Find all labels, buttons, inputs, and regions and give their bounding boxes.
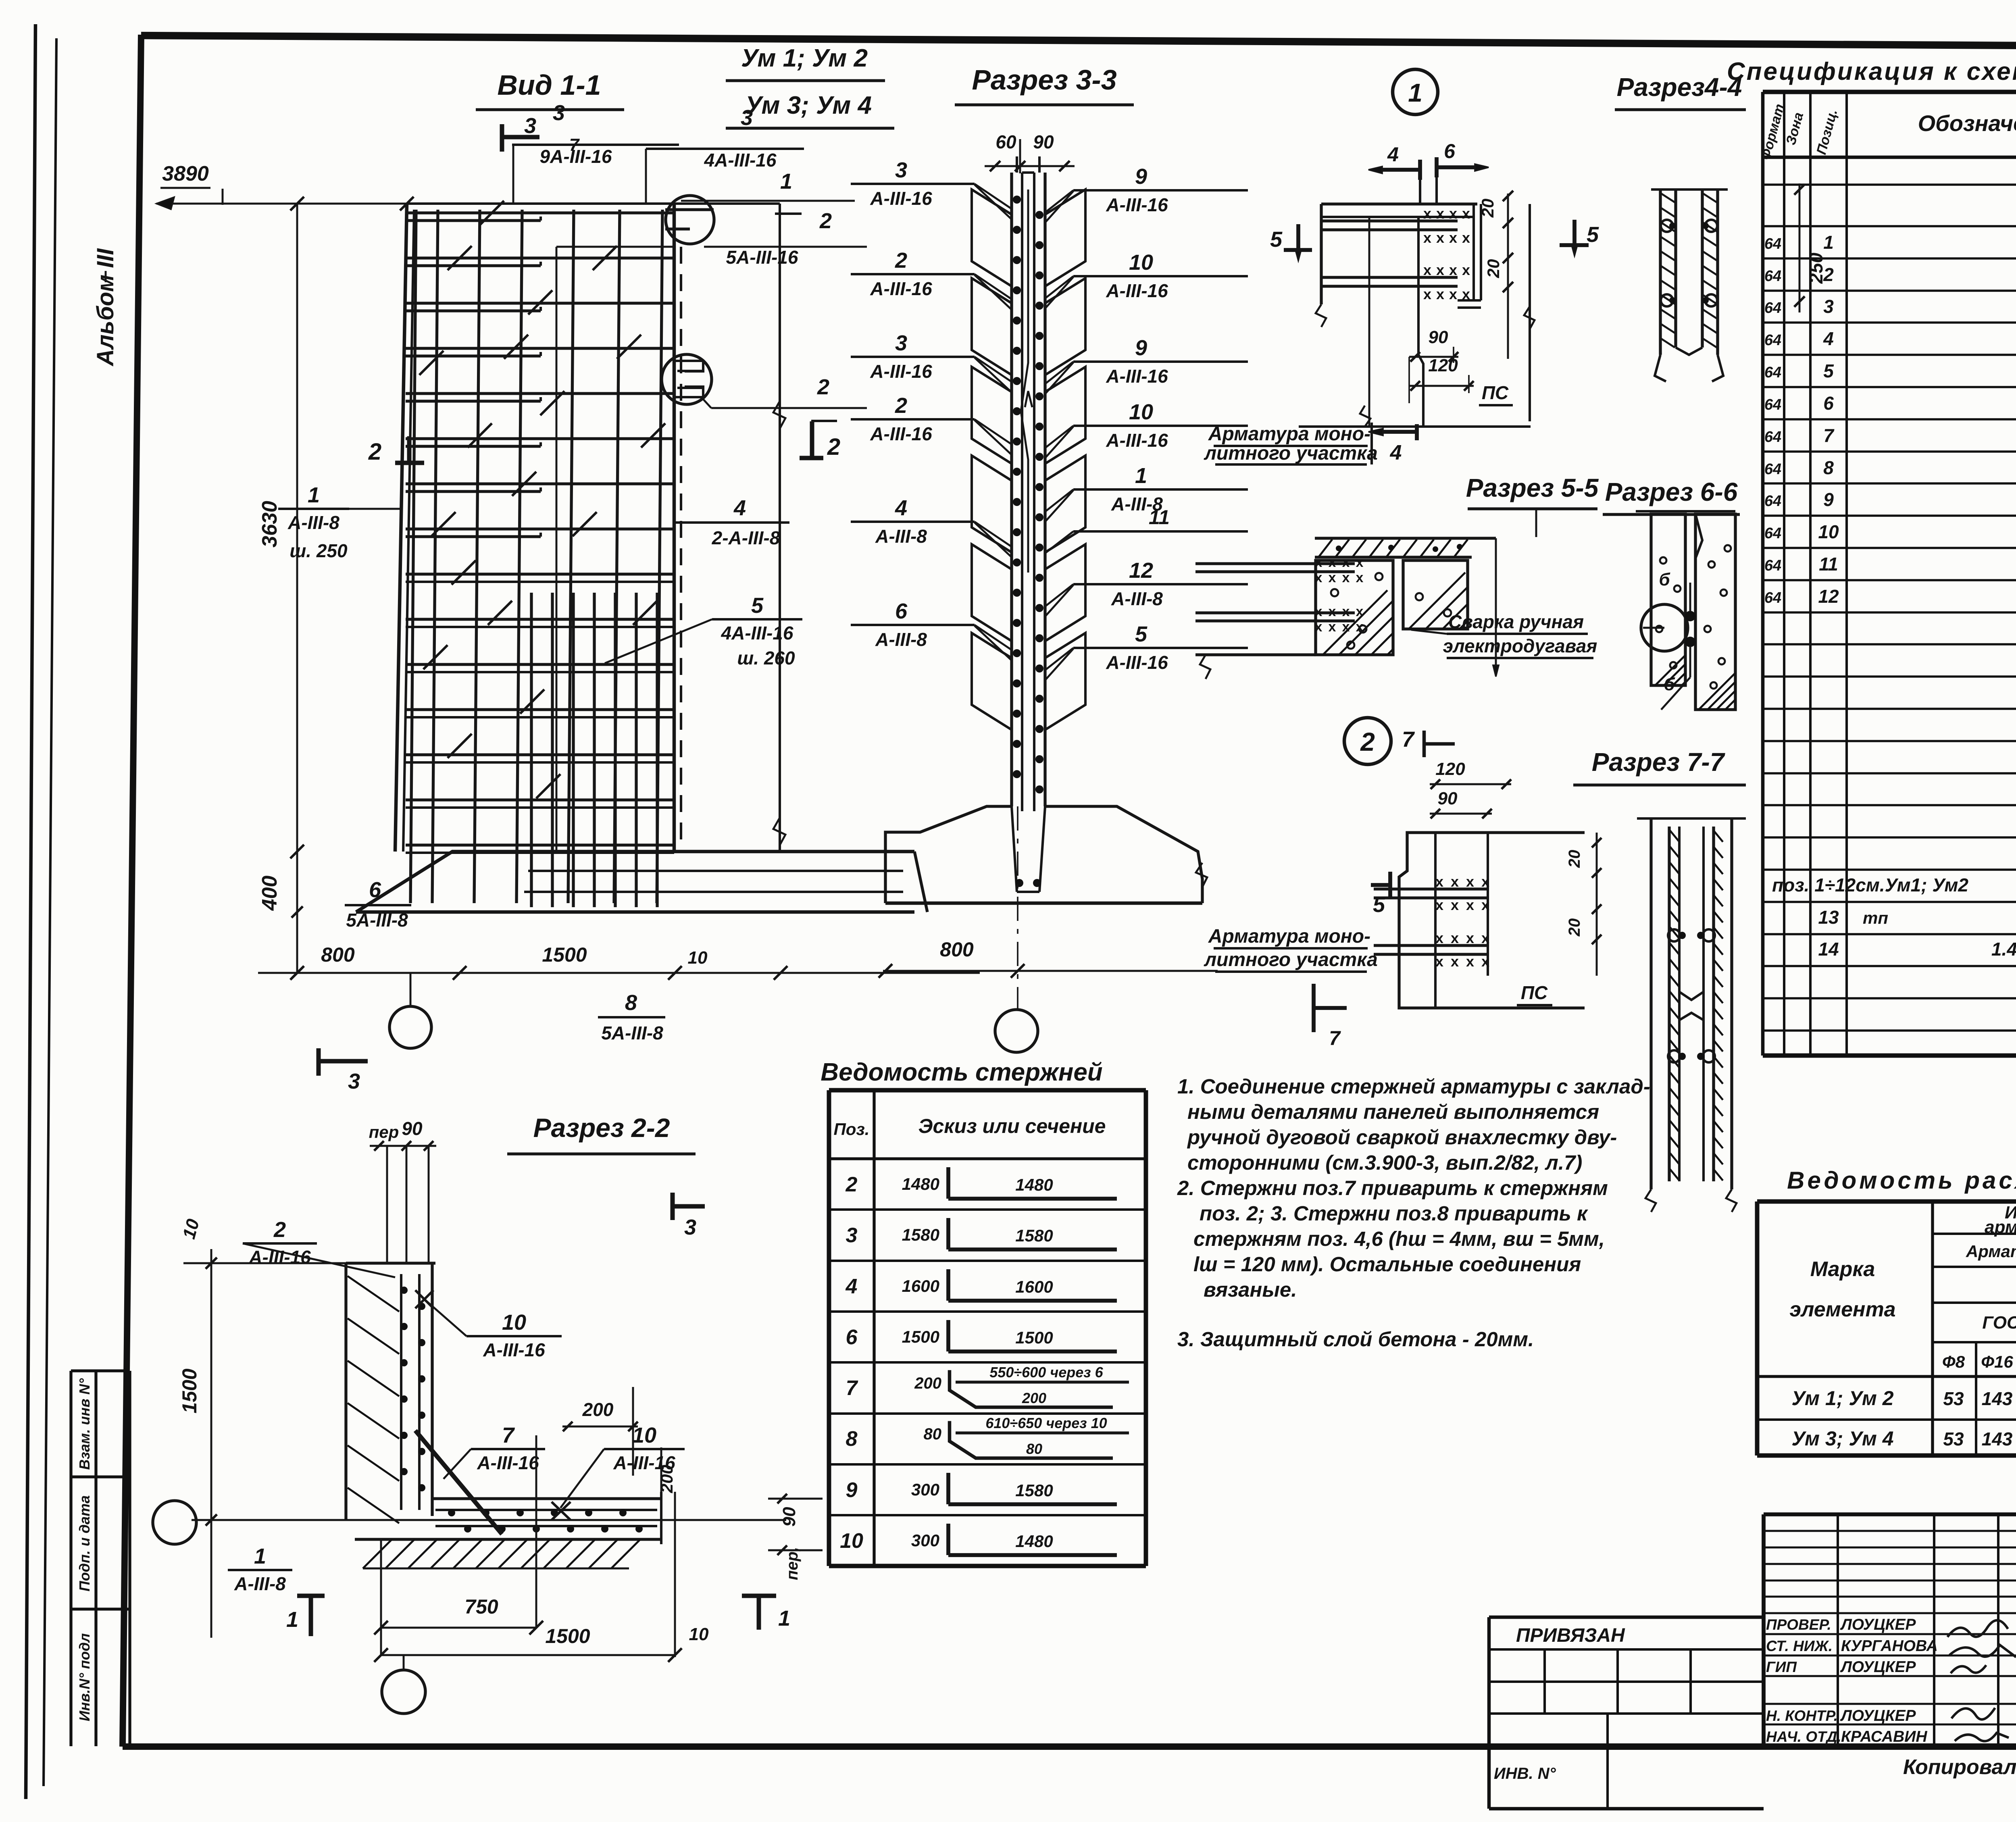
svg-text:5А-III-8: 5А-III-8 xyxy=(346,910,408,931)
svg-text:x: x xyxy=(1466,873,1474,890)
svg-text:арматурные: арматурные xyxy=(1985,1217,2016,1237)
svg-text:x: x xyxy=(1435,930,1443,946)
svg-text:1500: 1500 xyxy=(1015,1328,1053,1347)
svg-text:x: x xyxy=(1315,570,1322,585)
svg-text:Арматура моно-: Арматура моно- xyxy=(1208,423,1370,445)
svg-text:143: 143 xyxy=(1982,1388,2013,1409)
svg-text:20: 20 xyxy=(1478,199,1497,218)
svg-text:А-III-8: А-III-8 xyxy=(875,629,927,650)
svg-text:КРАСАВИН: КРАСАВИН xyxy=(1841,1728,1927,1745)
svg-text:10: 10 xyxy=(502,1310,526,1335)
svg-text:10: 10 xyxy=(840,1529,863,1553)
svg-text:12: 12 xyxy=(1129,558,1153,583)
svg-text:x: x xyxy=(1466,930,1474,946)
svg-text:А-III-8: А-III-8 xyxy=(1111,588,1163,609)
svg-text:3890: 3890 xyxy=(162,162,209,185)
svg-text:1500: 1500 xyxy=(545,1625,590,1647)
svg-text:x: x xyxy=(1356,619,1364,635)
svg-text:64: 64 xyxy=(1764,493,1781,510)
svg-text:90: 90 xyxy=(1033,131,1054,152)
svg-text:5: 5 xyxy=(751,593,764,618)
svg-text:x: x xyxy=(1466,897,1474,913)
svg-text:А-III-16: А-III-16 xyxy=(870,361,932,382)
svg-text:x: x xyxy=(1449,205,1457,222)
svg-text:2: 2 xyxy=(895,394,907,418)
svg-text:б: б xyxy=(1659,570,1670,589)
svg-text:Разрез 3-3: Разрез 3-3 xyxy=(972,64,1116,96)
svg-text:1: 1 xyxy=(308,483,320,507)
svg-text:x: x xyxy=(1462,229,1470,246)
svg-text:Арматура класса: Арматура класса xyxy=(1966,1242,2016,1261)
svg-text:ЛОУЦКЕР: ЛОУЦКЕР xyxy=(1840,1616,1916,1633)
svg-text:x: x xyxy=(1449,229,1457,246)
svg-text:Поз.: Поз. xyxy=(834,1120,870,1139)
svg-text:Разрез4-4: Разрез4-4 xyxy=(1617,73,1742,102)
svg-text:90: 90 xyxy=(1429,327,1448,347)
svg-text:А-III-16: А-III-16 xyxy=(870,278,932,299)
svg-text:Ум 3; Ум 4: Ум 3; Ум 4 xyxy=(1791,1427,1893,1450)
svg-text:2-А-III-8: 2-А-III-8 xyxy=(712,527,780,548)
svg-text:x: x xyxy=(1435,873,1443,890)
svg-text:20: 20 xyxy=(1566,850,1583,868)
svg-text:x: x xyxy=(1481,953,1489,970)
svg-text:Вид 1-1: Вид 1-1 xyxy=(497,69,601,101)
svg-text:1600: 1600 xyxy=(1015,1277,1053,1296)
svg-text:3: 3 xyxy=(553,101,565,125)
svg-text:1: 1 xyxy=(1135,464,1147,488)
svg-text:КУРГАНОВА: КУРГАНОВА xyxy=(1841,1637,1938,1655)
svg-text:6: 6 xyxy=(1444,140,1456,162)
svg-text:x: x xyxy=(1462,262,1470,278)
svg-text:10: 10 xyxy=(1818,521,1839,542)
svg-text:литного участка: литного участка xyxy=(1204,443,1378,464)
svg-text:ПРИВЯЗАН: ПРИВЯЗАН xyxy=(1516,1625,1625,1646)
svg-text:А-III-16: А-III-16 xyxy=(483,1339,545,1360)
svg-text:7: 7 xyxy=(502,1423,515,1447)
svg-text:А-III-8: А-III-8 xyxy=(234,1573,286,1594)
svg-text:А-III-16: А-III-16 xyxy=(1106,430,1168,451)
svg-text:750: 750 xyxy=(464,1595,498,1618)
svg-text:Спецификация к схемам располо: Спецификация к схемам расположения армат… xyxy=(1727,58,2016,85)
svg-text:x: x xyxy=(1356,570,1364,585)
svg-text:x: x xyxy=(1423,262,1431,278)
svg-text:64: 64 xyxy=(1764,461,1781,478)
svg-text:1480: 1480 xyxy=(902,1174,939,1193)
svg-text:Ум 3; Ум 4: Ум 3; Ум 4 xyxy=(745,92,872,119)
svg-text:x: x xyxy=(1315,619,1322,635)
svg-text:10: 10 xyxy=(1129,400,1153,424)
svg-text:ПС: ПС xyxy=(1482,382,1509,403)
svg-text:2: 2 xyxy=(819,209,832,233)
svg-text:80: 80 xyxy=(1026,1441,1042,1457)
svg-text:ЛОУЦКЕР: ЛОУЦКЕР xyxy=(1840,1707,1916,1724)
svg-text:сторонними (см.3.900-3, вып.2/: сторонними (см.3.900-3, вып.2/82, л.7) xyxy=(1187,1151,1582,1174)
svg-text:60: 60 xyxy=(996,131,1016,152)
svg-text:7: 7 xyxy=(1402,727,1415,752)
svg-text:ш. 250: ш. 250 xyxy=(289,540,348,561)
svg-text:x: x xyxy=(1315,555,1322,570)
svg-text:120: 120 xyxy=(1435,759,1465,779)
svg-text:Арматура моно-: Арматура моно- xyxy=(1208,926,1370,947)
svg-text:9: 9 xyxy=(1823,489,1834,510)
svg-text:12: 12 xyxy=(1818,586,1839,607)
svg-text:1: 1 xyxy=(1408,78,1422,107)
svg-text:3. Защитный слой бетона - 20: 3. Защитный слой бетона - 20мм. xyxy=(1177,1328,1534,1351)
svg-text:2: 2 xyxy=(817,375,829,399)
svg-text:x: x xyxy=(1435,953,1443,970)
svg-text:64: 64 xyxy=(1764,589,1781,606)
svg-text:200: 200 xyxy=(657,1465,676,1493)
svg-text:ПС: ПС xyxy=(1521,982,1548,1003)
svg-text:64: 64 xyxy=(1764,332,1781,349)
svg-text:5: 5 xyxy=(1270,227,1283,252)
svg-text:800: 800 xyxy=(940,938,974,961)
svg-text:9: 9 xyxy=(1135,336,1147,360)
svg-text:Разрез 5-5: Разрез 5-5 xyxy=(1466,473,1599,502)
svg-text:пер: пер xyxy=(369,1122,399,1141)
svg-text:6: 6 xyxy=(369,878,381,902)
svg-text:53: 53 xyxy=(1943,1388,1964,1409)
svg-text:1480: 1480 xyxy=(1015,1532,1053,1551)
svg-text:Марка: Марка xyxy=(1810,1258,1875,1281)
svg-text:ручной дуговой сваркой внах: ручной дуговой сваркой внахлестку дву- xyxy=(1187,1126,1617,1149)
svg-text:x: x xyxy=(1481,873,1489,890)
svg-text:2: 2 xyxy=(827,434,840,460)
svg-text:3: 3 xyxy=(895,331,907,355)
svg-text:20: 20 xyxy=(1484,259,1503,279)
svg-text:1600: 1600 xyxy=(902,1276,939,1295)
svg-text:x: x xyxy=(1436,286,1444,302)
svg-text:64: 64 xyxy=(1764,525,1781,542)
svg-text:электродугавая: электродугавая xyxy=(1443,635,1597,656)
svg-text:А-III-16: А-III-16 xyxy=(1106,280,1168,301)
svg-text:x: x xyxy=(1449,262,1457,278)
svg-text:ГИП: ГИП xyxy=(1766,1659,1797,1675)
svg-text:90: 90 xyxy=(779,1507,799,1526)
svg-text:143: 143 xyxy=(1982,1428,2013,1449)
svg-text:x: x xyxy=(1329,604,1336,619)
svg-text:3: 3 xyxy=(1823,296,1834,317)
svg-text:Эскиз или сечение: Эскиз или сечение xyxy=(918,1115,1106,1137)
svg-text:А-III-16: А-III-16 xyxy=(1106,366,1168,387)
svg-text:x: x xyxy=(1329,619,1336,635)
svg-text:А-III-16: А-III-16 xyxy=(870,423,932,444)
svg-text:ИНВ. N°: ИНВ. N° xyxy=(1494,1765,1556,1782)
svg-text:x: x xyxy=(1481,930,1489,946)
svg-text:7: 7 xyxy=(1329,1027,1341,1049)
svg-text:Разрез 6-6: Разрез 6-6 xyxy=(1605,477,1738,506)
svg-text:4: 4 xyxy=(1390,441,1402,464)
svg-text:200: 200 xyxy=(1022,1390,1046,1406)
svg-text:Разрез 7-7: Разрез 7-7 xyxy=(1592,748,1726,777)
svg-text:300: 300 xyxy=(911,1531,939,1550)
svg-text:Альбом III: Альбом III xyxy=(92,248,119,367)
svg-text:ш. 260: ш. 260 xyxy=(737,648,795,668)
svg-text:2: 2 xyxy=(1360,727,1375,756)
svg-text:3: 3 xyxy=(895,158,907,182)
svg-text:3: 3 xyxy=(524,114,536,138)
svg-text:1: 1 xyxy=(780,169,792,194)
svg-text:Разрез 2-2: Разрез 2-2 xyxy=(533,1113,670,1143)
svg-text:Ведомость расхода стали на: Ведомость расхода стали на один элемент,… xyxy=(1787,1167,2016,1194)
svg-text:8: 8 xyxy=(625,991,637,1015)
svg-text:2: 2 xyxy=(368,439,381,465)
svg-text:5: 5 xyxy=(1587,223,1599,247)
svg-text:А-III-16: А-III-16 xyxy=(1106,194,1168,215)
svg-text:Инв.N° подл: Инв.N° подл xyxy=(76,1633,93,1721)
svg-text:1500: 1500 xyxy=(542,943,587,966)
svg-text:x: x xyxy=(1342,555,1350,570)
svg-text:10: 10 xyxy=(688,948,708,968)
svg-text:610÷650 через 10: 610÷650 через 10 xyxy=(985,1415,1107,1431)
svg-text:Подп. и дата: Подп. и дата xyxy=(76,1495,93,1591)
svg-text:x: x xyxy=(1342,619,1350,635)
svg-text:10: 10 xyxy=(689,1624,709,1644)
svg-text:14: 14 xyxy=(1818,939,1839,960)
svg-text:x: x xyxy=(1436,229,1444,246)
svg-text:поз. 2; 3. Стержни поз.8 п: поз. 2; 3. Стержни поз.8 приварить к xyxy=(1200,1202,1588,1225)
svg-text:8: 8 xyxy=(1823,457,1834,478)
svg-text:4: 4 xyxy=(1823,328,1834,349)
svg-text:1480: 1480 xyxy=(1015,1175,1053,1194)
svg-text:3630: 3630 xyxy=(258,501,281,548)
svg-text:стержням поз. 4,6 (hш = 4мм,: стержням поз. 4,6 (hш = 4мм, вш = 5мм, xyxy=(1193,1227,1605,1250)
svg-text:4: 4 xyxy=(895,496,907,520)
svg-text:Сварка ручная: Сварка ручная xyxy=(1448,611,1584,632)
svg-text:64: 64 xyxy=(1764,396,1781,413)
svg-text:5А-III-8: 5А-III-8 xyxy=(601,1022,663,1043)
svg-text:64: 64 xyxy=(1764,235,1781,252)
svg-text:А-III-16: А-III-16 xyxy=(477,1452,539,1473)
svg-text:А-III-16: А-III-16 xyxy=(870,188,932,209)
svg-text:1500: 1500 xyxy=(178,1368,201,1413)
svg-text:пер,: пер, xyxy=(783,1547,801,1580)
svg-text:1.400-15 Вып. 1: 1.400-15 Вып. 1 xyxy=(1991,939,2016,960)
svg-text:x: x xyxy=(1451,897,1459,913)
svg-text:6: 6 xyxy=(846,1326,858,1349)
svg-text:вязаные.: вязаные. xyxy=(1204,1278,1297,1301)
svg-text:3: 3 xyxy=(846,1224,858,1247)
svg-text:б: б xyxy=(1664,675,1675,694)
svg-text:x: x xyxy=(1462,205,1470,222)
svg-text:3: 3 xyxy=(348,1069,360,1093)
svg-text:4А-III-16: 4А-III-16 xyxy=(704,150,777,171)
svg-text:250: 250 xyxy=(1806,252,1826,284)
svg-text:1580: 1580 xyxy=(902,1225,939,1244)
svg-text:550÷600 через 6: 550÷600 через 6 xyxy=(989,1364,1103,1381)
svg-text:x: x xyxy=(1315,604,1322,619)
svg-text:20: 20 xyxy=(1566,918,1583,937)
svg-text:3: 3 xyxy=(684,1215,696,1239)
svg-text:64: 64 xyxy=(1764,364,1781,381)
svg-text:5: 5 xyxy=(1823,360,1834,381)
svg-text:1: 1 xyxy=(778,1606,790,1630)
svg-text:x: x xyxy=(1451,873,1459,890)
svg-text:ными деталями панелей выпол: ными деталями панелей выполняется xyxy=(1187,1100,1599,1123)
svg-text:5: 5 xyxy=(1135,622,1148,646)
svg-text:9А-III-16: 9А-III-16 xyxy=(540,146,612,167)
svg-text:6: 6 xyxy=(895,599,908,623)
svg-text:10: 10 xyxy=(1129,250,1153,275)
svg-text:80: 80 xyxy=(924,1425,942,1443)
svg-text:800: 800 xyxy=(321,943,355,966)
svg-text:4: 4 xyxy=(1387,143,1399,166)
svg-text:А-III-8: А-III-8 xyxy=(287,512,339,533)
svg-text:СТ. НИЖ.: СТ. НИЖ. xyxy=(1766,1638,1833,1654)
svg-text:элемента: элемента xyxy=(1789,1298,1895,1321)
svg-text:9: 9 xyxy=(1135,165,1147,189)
svg-text:4А-III-16: 4А-III-16 xyxy=(721,623,793,643)
svg-text:2: 2 xyxy=(846,1173,858,1196)
svg-text:8: 8 xyxy=(846,1427,858,1451)
svg-text:9: 9 xyxy=(846,1478,858,1502)
svg-text:1: 1 xyxy=(286,1608,298,1632)
svg-text:x: x xyxy=(1356,604,1364,619)
svg-text:А-III-8: А-III-8 xyxy=(875,526,927,547)
svg-text:1: 1 xyxy=(1823,232,1834,253)
svg-text:x: x xyxy=(1342,570,1350,585)
svg-text:Ф16: Ф16 xyxy=(1981,1352,2013,1371)
svg-text:3: 3 xyxy=(741,106,753,130)
svg-text:4: 4 xyxy=(733,496,746,520)
svg-text:поз. 1÷12см.Ум1; Ум2: поз. 1÷12см.Ум1; Ум2 xyxy=(1772,875,1968,895)
svg-text:400: 400 xyxy=(258,876,281,911)
svg-text:ЛОУЦКЕР: ЛОУЦКЕР xyxy=(1840,1658,1916,1676)
svg-text:Ум 1; Ум 2: Ум 1; Ум 2 xyxy=(1791,1387,1893,1410)
svg-text:5А-III-16: 5А-III-16 xyxy=(726,247,798,268)
svg-text:тп: тп xyxy=(1863,908,1888,927)
svg-text:x: x xyxy=(1436,262,1444,278)
svg-text:lш = 120 мм). Остальные со: lш = 120 мм). Остальные соединения xyxy=(1193,1253,1581,1276)
svg-text:53: 53 xyxy=(1943,1428,1964,1449)
svg-text:11: 11 xyxy=(1149,506,1170,529)
svg-text:x: x xyxy=(1342,604,1350,619)
svg-text:x: x xyxy=(1329,570,1336,585)
svg-text:x: x xyxy=(1462,286,1470,302)
svg-text:Взам. инв N°: Взам. инв N° xyxy=(76,1378,93,1470)
svg-text:ПРОВЕР.: ПРОВЕР. xyxy=(1766,1616,1831,1633)
svg-text:1580: 1580 xyxy=(1015,1481,1053,1500)
svg-text:x: x xyxy=(1435,897,1443,913)
svg-text:Ум 1; Ум 2: Ум 1; Ум 2 xyxy=(741,44,868,72)
svg-text:11: 11 xyxy=(1819,554,1838,575)
svg-text:Ведомость стержней: Ведомость стержней xyxy=(821,1058,1102,1086)
svg-text:5: 5 xyxy=(1373,893,1385,917)
svg-text:1500: 1500 xyxy=(902,1327,939,1346)
svg-text:НАЧ. ОТД.: НАЧ. ОТД. xyxy=(1766,1728,1841,1745)
svg-text:x: x xyxy=(1466,953,1474,970)
svg-text:300: 300 xyxy=(911,1480,939,1499)
svg-text:64: 64 xyxy=(1764,429,1781,446)
svg-text:x: x xyxy=(1423,205,1431,222)
svg-text:1580: 1580 xyxy=(1015,1226,1053,1245)
svg-text:Н. КОНТР.: Н. КОНТР. xyxy=(1766,1707,1838,1724)
svg-text:x: x xyxy=(1481,897,1489,913)
svg-text:x: x xyxy=(1423,229,1431,246)
svg-text:1: 1 xyxy=(254,1544,266,1568)
svg-text:Копировал:: Копировал: xyxy=(1903,1755,2016,1779)
svg-text:ГОСТ 5781-82: ГОСТ 5781-82 xyxy=(1982,1313,2016,1333)
svg-text:x: x xyxy=(1451,930,1459,946)
svg-text:x: x xyxy=(1423,286,1431,302)
svg-text:200: 200 xyxy=(914,1374,941,1392)
svg-text:литного участка: литного участка xyxy=(1204,949,1378,970)
svg-text:А-III-16: А-III-16 xyxy=(1106,652,1168,673)
svg-text:x: x xyxy=(1329,555,1336,570)
svg-text:2. Стержни поз.7 приварить: 2. Стержни поз.7 приварить к стержням xyxy=(1177,1176,1608,1199)
svg-text:90: 90 xyxy=(1438,789,1458,808)
svg-text:13: 13 xyxy=(1818,907,1839,928)
svg-text:x: x xyxy=(1449,286,1457,302)
svg-text:2: 2 xyxy=(273,1218,286,1242)
svg-text:200: 200 xyxy=(582,1399,614,1420)
svg-text:64: 64 xyxy=(1764,268,1781,285)
svg-text:7: 7 xyxy=(1823,425,1835,446)
svg-text:64: 64 xyxy=(1764,557,1781,574)
svg-text:Ф8: Ф8 xyxy=(1942,1352,1965,1371)
svg-text:7: 7 xyxy=(846,1376,858,1400)
svg-text:1. Соединение стержней армат: 1. Соединение стержней арматуры с заклад… xyxy=(1177,1075,1650,1098)
svg-text:90: 90 xyxy=(402,1118,423,1139)
svg-text:6: 6 xyxy=(1823,393,1834,414)
svg-text:x: x xyxy=(1451,953,1459,970)
svg-text:x: x xyxy=(1436,205,1444,222)
svg-text:4: 4 xyxy=(846,1275,858,1298)
svg-text:x: x xyxy=(1356,555,1364,570)
svg-text:Обозначение: Обозначение xyxy=(1918,110,2016,136)
svg-text:2: 2 xyxy=(895,248,907,273)
svg-text:64: 64 xyxy=(1764,300,1781,317)
